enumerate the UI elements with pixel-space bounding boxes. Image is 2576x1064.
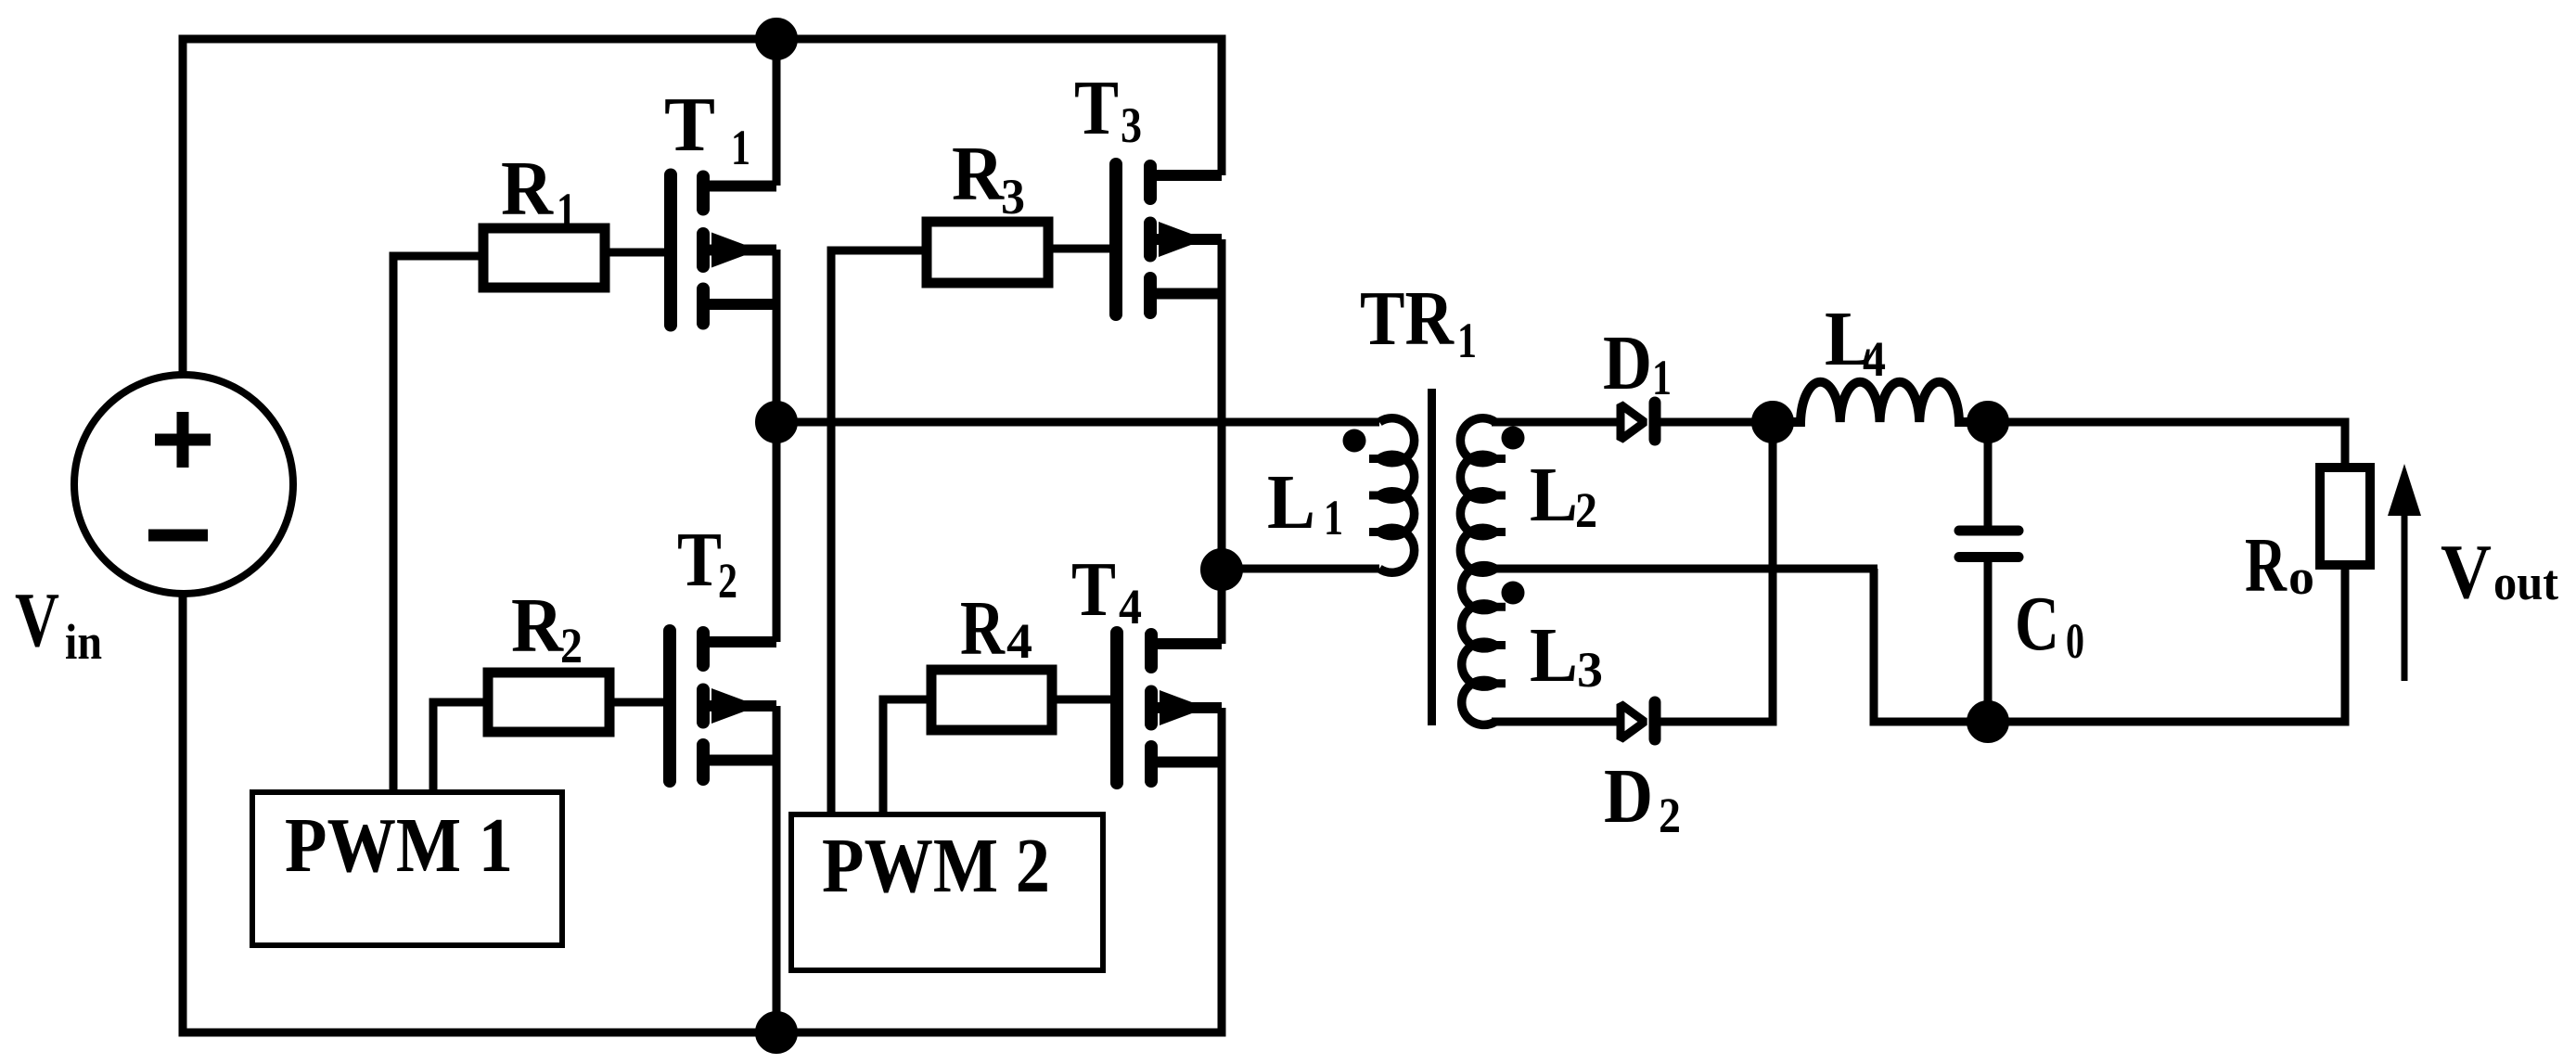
svg-text:R: R (952, 131, 1005, 217)
wire PWM2 to R3 (831, 250, 927, 814)
svg-text:L: L (1530, 452, 1578, 538)
svg-text:1: 1 (1652, 350, 1672, 405)
wire T4 drain from midpoint (1218, 570, 1226, 644)
box PWM1 (252, 792, 562, 945)
node bridge right midpoint (1205, 553, 1239, 587)
svg-text:R: R (501, 146, 554, 232)
label T4 (1071, 546, 1142, 635)
svg-text:R: R (2245, 522, 2288, 609)
node bridge left midpoint (760, 405, 794, 440)
wire secondary top to D1 (1492, 418, 1621, 427)
label PWM 2 (822, 823, 1050, 909)
svg-text:0: 0 (2066, 613, 2084, 669)
label Vin (15, 577, 102, 670)
wire T2 source to bottom junction (773, 706, 781, 1032)
svg-text:4: 4 (1006, 613, 1032, 669)
polarity dot L3 (1502, 582, 1525, 605)
wire R4 to T4 gate (1052, 696, 1117, 704)
transistor T2 (670, 631, 776, 781)
transformer secondary winding L3 (1462, 566, 1495, 725)
wire R2 to T2 gate (609, 699, 670, 707)
svg-text:4: 4 (1119, 579, 1142, 635)
svg-text:2: 2 (1659, 788, 1681, 843)
svg-text:L: L (1530, 612, 1578, 699)
resistor R1 (483, 228, 605, 288)
label R1 (501, 146, 576, 238)
polarity dot L1 (1343, 429, 1366, 453)
svg-text:R: R (960, 585, 1006, 672)
transformer core (1428, 389, 1436, 725)
wire center tap (1489, 565, 1878, 573)
node A D1-L4 junction (1756, 405, 1790, 440)
svg-text:2: 2 (1575, 482, 1597, 538)
resistor R2 (488, 673, 609, 732)
svg-text:in: in (65, 614, 102, 670)
transistor T3 (1116, 164, 1222, 314)
wire PWM1 to R2 (433, 702, 488, 792)
wire primary top (776, 418, 1379, 427)
svg-text:V: V (15, 577, 59, 663)
wire T1 drain to top rail (773, 39, 781, 186)
resistor Ro (2320, 468, 2370, 565)
node B L4-C0 junction (1971, 405, 2006, 440)
wire bottom rail with left rail lower and right leg bottom (183, 592, 1222, 1032)
box PWM2 (791, 814, 1103, 970)
label Ro (2245, 522, 2314, 609)
svg-text:1: 1 (1457, 313, 1477, 368)
svg-text:TR: TR (1360, 276, 1455, 362)
svg-text:V: V (2441, 529, 2492, 615)
label T3 (1074, 65, 1142, 153)
diode D2 (1621, 702, 1655, 739)
label R2 (511, 583, 583, 673)
wire T1 source to left midpoint node (773, 250, 781, 422)
svg-text:R: R (511, 583, 564, 669)
inductor L4 (1773, 382, 1988, 422)
label C0 (2015, 581, 2084, 669)
label PWM 1 (285, 802, 513, 889)
label L4 (1825, 296, 1886, 387)
transistor T4 (1117, 633, 1222, 783)
svg-text:T: T (664, 82, 715, 168)
svg-text:o: o (2288, 549, 2314, 605)
svg-text:T: T (1074, 65, 1119, 151)
transformer primary winding L1 (1379, 418, 1415, 573)
label R4 (960, 585, 1032, 672)
node top junction (760, 22, 794, 57)
svg-text:D: D (1604, 753, 1653, 840)
voltage source Vin (74, 375, 293, 594)
polarity dot L2 (1502, 427, 1525, 450)
wire D1 to node A (1660, 418, 1773, 427)
svg-text:L: L (1267, 459, 1315, 545)
wire PWM1 to R1 (393, 256, 483, 792)
svg-text:3: 3 (1121, 97, 1142, 153)
label L1 (1267, 459, 1343, 545)
svg-text:2: 2 (560, 618, 583, 673)
wire primary bottom (1223, 565, 1379, 573)
label T2 (677, 517, 737, 609)
svg-text:T: T (1071, 546, 1116, 633)
node bottom junction (760, 1016, 794, 1050)
resistor R4 (931, 670, 1052, 730)
label T1 (664, 82, 750, 175)
label D2 (1604, 753, 1681, 843)
label Vout (2441, 529, 2558, 615)
wire R1 to T1 gate (605, 249, 671, 257)
arrow Vout (2388, 464, 2421, 681)
svg-text:C: C (2015, 581, 2059, 667)
svg-text:1: 1 (731, 120, 750, 175)
wire secondary bottom to D2 (1492, 718, 1621, 726)
label L3 (1530, 612, 1603, 699)
svg-text:T: T (677, 517, 722, 603)
svg-text:3: 3 (1001, 169, 1025, 224)
label L2 (1530, 452, 1597, 538)
svg-text:2: 2 (718, 553, 737, 609)
svg-text:PWM 1: PWM 1 (285, 802, 513, 889)
node C0 ground junction (1971, 705, 2006, 739)
label D1 (1603, 320, 1672, 406)
transformer secondary winding L2 (1460, 418, 1495, 573)
capacitor C0 (1959, 422, 2019, 722)
wire node B to Ro top (1988, 422, 2345, 468)
transistor T1 (671, 175, 776, 326)
svg-text:D: D (1603, 320, 1652, 406)
wire top rail with left rail upper and right leg top (183, 39, 1222, 377)
wire D2 to riser up to node A (1660, 422, 1773, 722)
label R3 (952, 131, 1025, 224)
diode D1 (1621, 403, 1655, 440)
label TR1 (1360, 276, 1477, 368)
wire PWM2 to R4 (883, 699, 931, 814)
svg-text:4: 4 (1863, 331, 1886, 387)
wire R3 to T3 gate (1048, 245, 1116, 253)
svg-text:1: 1 (557, 183, 576, 238)
wire T2 drain from midpoint (773, 422, 781, 642)
svg-text:PWM 2: PWM 2 (822, 823, 1050, 909)
svg-text:3: 3 (1577, 642, 1603, 698)
svg-text:1: 1 (1324, 490, 1343, 545)
resistor R3 (927, 222, 1048, 283)
wire Ro bottom and output ground rail (1874, 565, 2345, 722)
wire T3 source to right midpoint node (1218, 239, 1226, 570)
svg-text:out: out (2493, 555, 2558, 610)
